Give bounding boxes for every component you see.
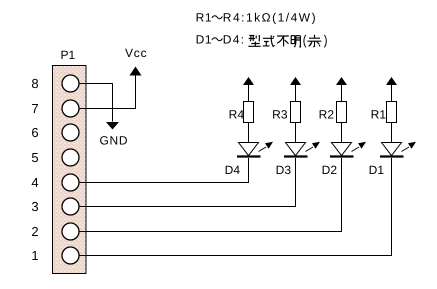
svg-text:D3: D3 (276, 163, 292, 177)
connector P1 body (53, 66, 87, 274)
wire pin 7 to Vcc (80, 76, 136, 109)
wire R1 to D1 (391, 123, 393, 143)
kanji 明 (291, 36, 300, 48)
LED D1 (380, 142, 416, 157)
caption LED types D1-D4 (196, 33, 246, 47)
pin 7 circle (62, 100, 79, 117)
svg-text:5: 5 (31, 150, 38, 165)
svg-text:D4:: D4: (223, 33, 245, 47)
wire pin 3 to D3 branch (80, 158, 296, 207)
pin 5 circle (62, 149, 79, 166)
svg-text:R2: R2 (319, 108, 335, 122)
svg-text:D1: D1 (196, 33, 213, 47)
kanji 式 (263, 35, 275, 46)
svg-text:Vcc: Vcc (125, 46, 147, 60)
power arrow Vcc branch D4 (243, 77, 254, 102)
wire R3 to D3 (295, 123, 297, 143)
LED D3 (284, 142, 320, 157)
svg-text:R4:1kΩ(1/4W): R4:1kΩ(1/4W) (223, 11, 317, 25)
wire pin 1 to D1 branch (80, 158, 392, 256)
caption resistor values R1-R4 (196, 11, 318, 25)
svg-text:R4: R4 (229, 108, 245, 122)
kanji 不 (277, 36, 289, 47)
svg-text:R1: R1 (371, 108, 387, 122)
svg-text:3: 3 (31, 199, 38, 214)
resistor R3 (291, 102, 301, 123)
right paren (324, 35, 326, 47)
svg-text:8: 8 (31, 76, 38, 91)
wire R4 to D4 (248, 123, 250, 143)
kanji 型 (248, 35, 260, 46)
resistor R1 (387, 102, 397, 123)
power arrow Vcc branch D2 (336, 77, 347, 102)
LED D4 (237, 142, 273, 157)
svg-text:D1: D1 (369, 163, 385, 177)
kanji 赤 (308, 35, 322, 47)
svg-text:R1: R1 (196, 11, 213, 25)
svg-text:1: 1 (31, 248, 38, 263)
pin 6 circle (62, 124, 79, 141)
pin 2 circle (62, 223, 79, 240)
power Vcc arrow (130, 67, 142, 76)
svg-text:7: 7 (31, 101, 38, 116)
wire R2 to D2 (341, 123, 343, 143)
wire pin 4 to D4 branch (80, 158, 249, 183)
power arrow Vcc branch D3 (290, 77, 301, 102)
resistor R4 (244, 102, 254, 123)
svg-text:2: 2 (31, 224, 38, 239)
svg-text:4: 4 (31, 175, 38, 190)
svg-text:P1: P1 (61, 48, 76, 62)
LED D2 (330, 142, 366, 157)
ground GND arrow (106, 122, 119, 130)
svg-text:D2: D2 (322, 163, 338, 177)
pin 1 circle (62, 247, 79, 264)
pin 8 circle (62, 75, 79, 92)
pin 4 circle (62, 174, 79, 191)
left paren (304, 35, 306, 47)
svg-text:D4: D4 (225, 163, 241, 177)
pin 3 circle (62, 198, 79, 215)
svg-text:GND: GND (100, 134, 129, 148)
wire pin 2 to D2 branch (80, 158, 342, 232)
power arrow Vcc branch D1 (386, 77, 397, 102)
svg-text:R3: R3 (272, 108, 288, 122)
wire pin 8 to GND (80, 84, 113, 122)
svg-text:6: 6 (31, 125, 38, 140)
resistor R2 (337, 102, 347, 123)
